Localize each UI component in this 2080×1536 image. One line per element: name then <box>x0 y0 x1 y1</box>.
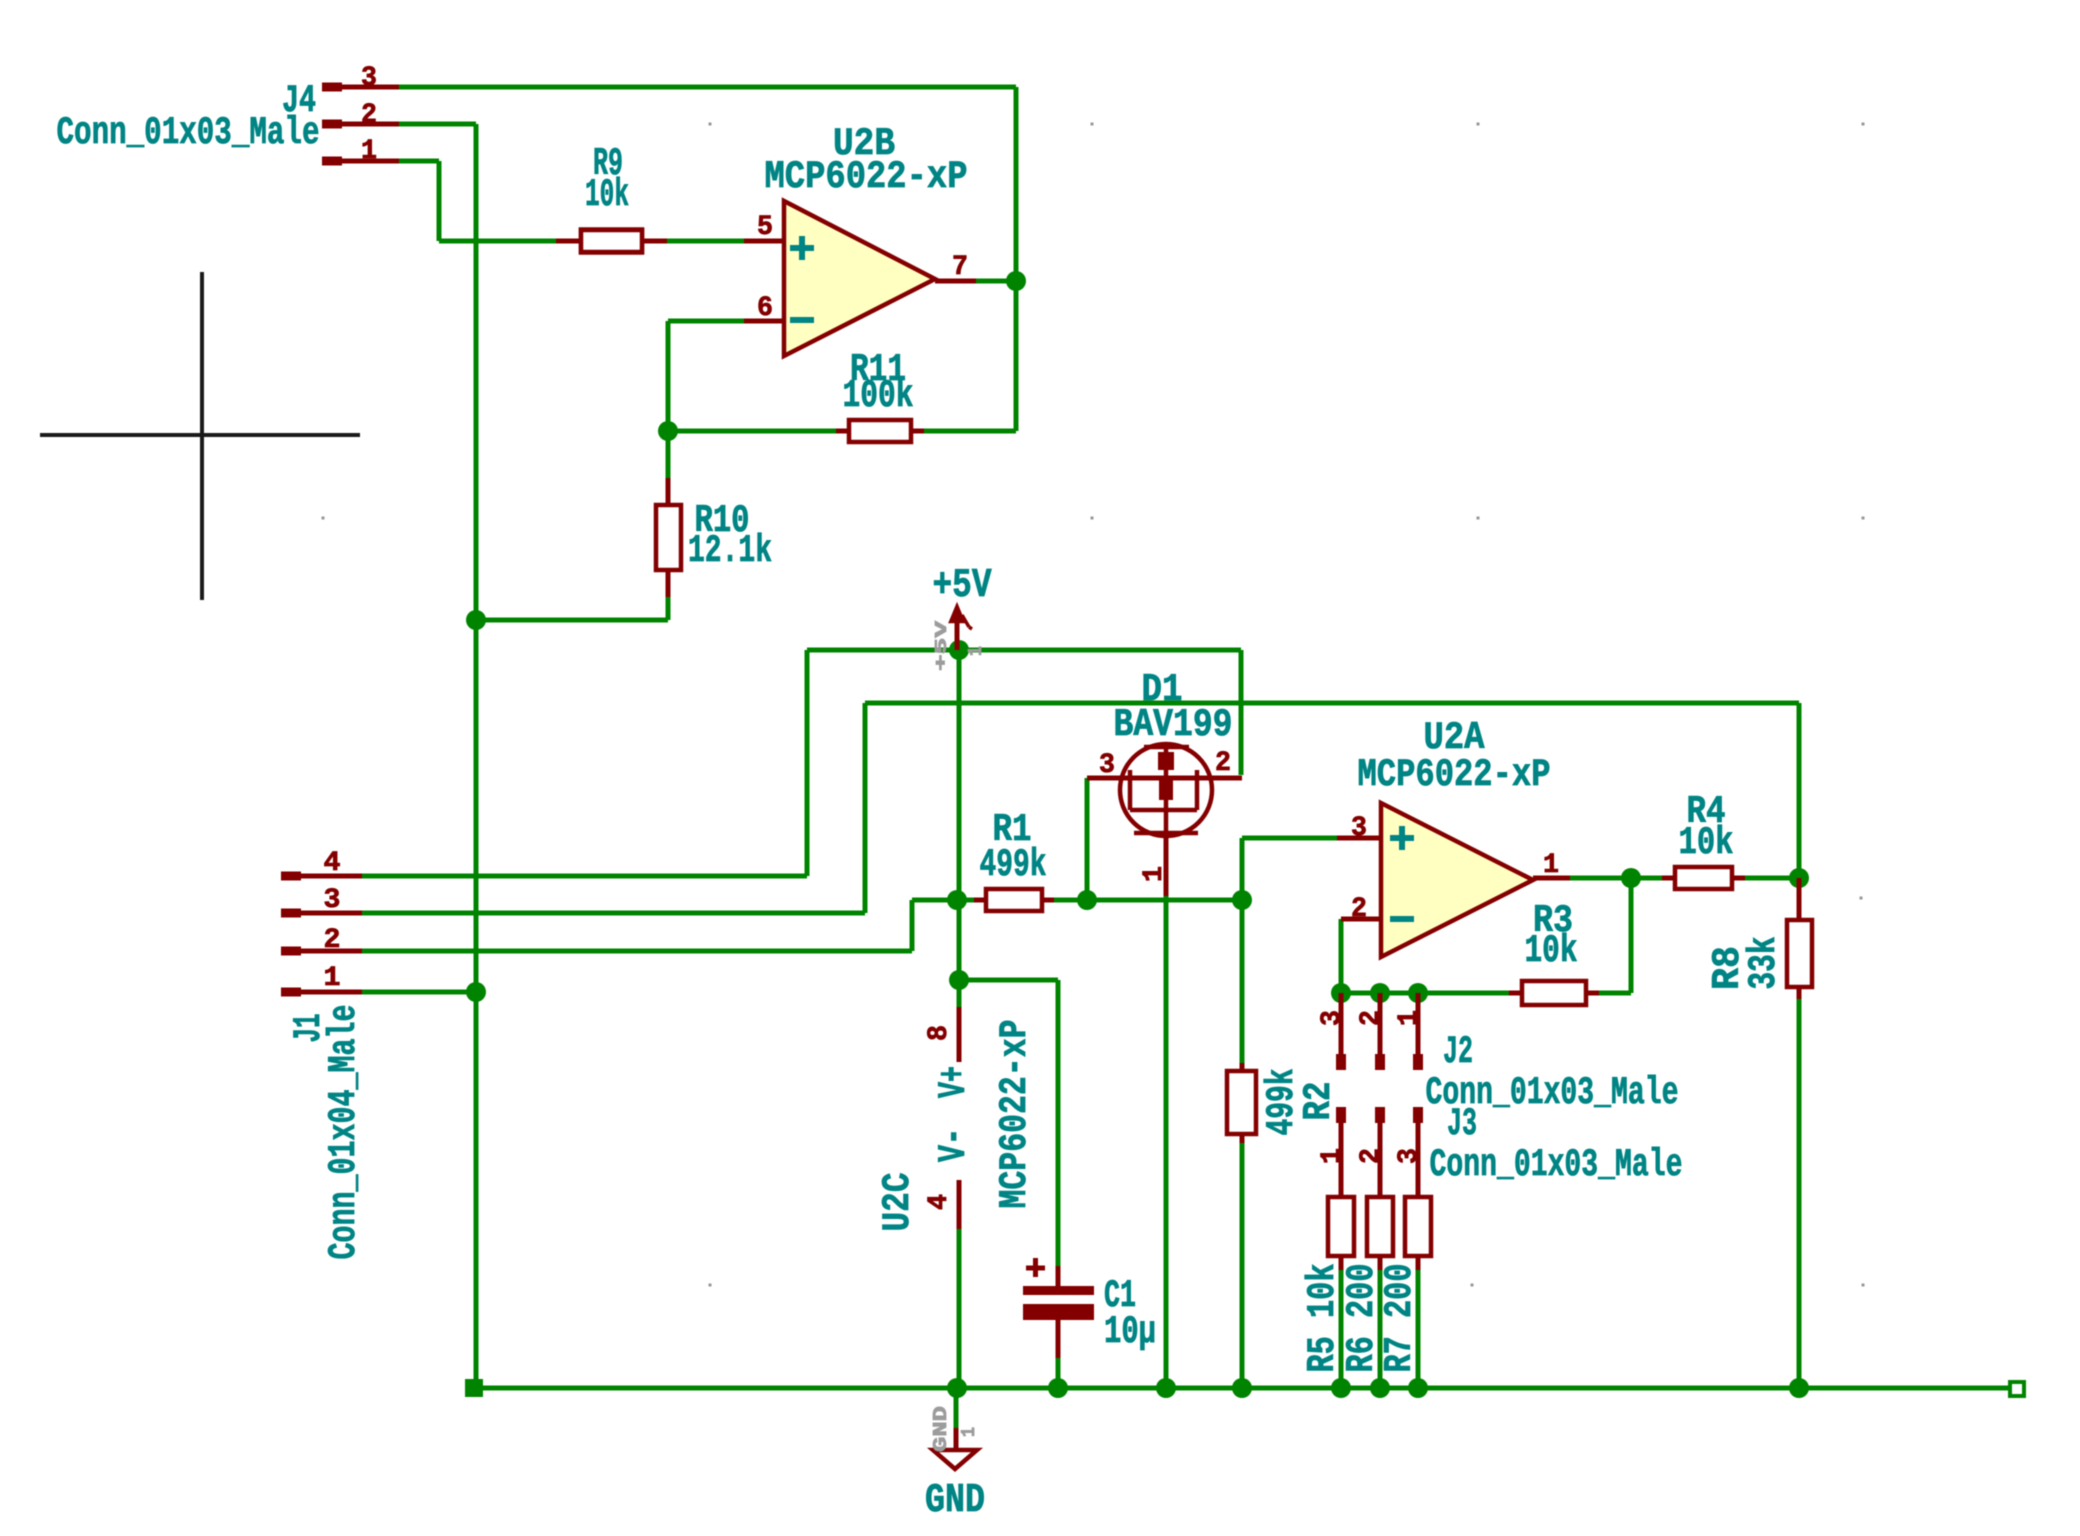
svg-text:1: 1 <box>965 646 987 656</box>
svg-text:GND: GND <box>925 1478 985 1524</box>
svg-text:7: 7 <box>952 252 968 283</box>
svg-text:+5V: +5V <box>933 563 992 609</box>
svg-text:3: 3 <box>1394 1148 1425 1164</box>
svg-text:2: 2 <box>1356 1010 1387 1026</box>
svg-text:5: 5 <box>757 212 773 243</box>
svg-text:1: 1 <box>958 1427 980 1437</box>
svg-text:J3: J3 <box>1447 1102 1477 1146</box>
svg-text:3: 3 <box>324 885 341 916</box>
svg-text:100k: 100k <box>843 374 914 418</box>
svg-text:1: 1 <box>1317 1148 1348 1164</box>
svg-text:R5 10k: R5 10k <box>1301 1264 1345 1373</box>
svg-text:2: 2 <box>1356 1148 1387 1164</box>
svg-text:2: 2 <box>324 925 341 956</box>
svg-text:1: 1 <box>324 963 341 994</box>
svg-text:GND: GND <box>930 1406 952 1452</box>
svg-text:V+: V+ <box>932 1066 976 1098</box>
svg-text:1: 1 <box>1139 866 1170 882</box>
svg-text:J2: J2 <box>1443 1030 1473 1074</box>
svg-text:499k: 499k <box>980 843 1047 887</box>
svg-text:1: 1 <box>1543 850 1559 881</box>
svg-text:3: 3 <box>1317 1010 1348 1026</box>
svg-text:V-: V- <box>932 1128 976 1162</box>
svg-text:33k: 33k <box>1742 937 1786 990</box>
svg-text:499k: 499k <box>1260 1069 1304 1136</box>
svg-text:MCP6022-xP: MCP6022-xP <box>765 155 968 199</box>
svg-text:3: 3 <box>1099 750 1115 781</box>
svg-text:1: 1 <box>1394 1010 1425 1026</box>
svg-text:10k: 10k <box>1525 929 1578 973</box>
svg-text:4: 4 <box>924 1194 955 1210</box>
svg-text:12.1k: 12.1k <box>688 529 772 573</box>
svg-text:3: 3 <box>1351 813 1367 844</box>
svg-text:10k: 10k <box>1679 821 1734 865</box>
svg-text:Conn_01x04_Male: Conn_01x04_Male <box>322 1005 366 1260</box>
svg-text:Conn_01x03_Male: Conn_01x03_Male <box>1430 1143 1683 1187</box>
svg-text:4: 4 <box>324 848 341 879</box>
svg-text:Conn_01x03_Male: Conn_01x03_Male <box>57 111 320 155</box>
svg-text:2: 2 <box>1215 748 1231 779</box>
svg-text:MCP6022-xP: MCP6022-xP <box>1358 753 1551 797</box>
svg-text:MCP6022-xP: MCP6022-xP <box>993 1020 1037 1209</box>
svg-text:U2C: U2C <box>876 1173 920 1232</box>
svg-text:3: 3 <box>361 63 377 94</box>
svg-text:2: 2 <box>1351 894 1367 925</box>
svg-text:6: 6 <box>757 293 773 324</box>
svg-text:+5V: +5V <box>933 620 952 671</box>
svg-text:BAV199: BAV199 <box>1114 703 1233 747</box>
svg-text:R7 200: R7 200 <box>1378 1264 1422 1373</box>
svg-text:10k: 10k <box>585 173 629 217</box>
svg-text:2: 2 <box>361 100 377 131</box>
svg-text:8: 8 <box>924 1025 955 1041</box>
svg-text:10µ: 10µ <box>1104 1310 1156 1354</box>
svg-text:1: 1 <box>361 136 377 167</box>
